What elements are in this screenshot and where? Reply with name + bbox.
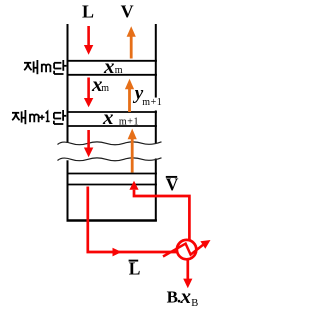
- column left wall lower: [67, 160, 69, 221]
- svg-text:B: B: [191, 298, 198, 309]
- svg-text:m+1: m+1: [142, 97, 162, 108]
- red arrow below stage m+1: [84, 130, 93, 157]
- column right wall upper segment: [155, 24, 157, 98]
- tray m bottom line: [67, 74, 157, 76]
- bottom tray bottom line: [67, 184, 157, 186]
- red arrowhead on L-bar pipe: [113, 248, 122, 257]
- orange arrow V out of stage m: [127, 26, 136, 58]
- reboiler zigzag heater arrow: [163, 244, 203, 257]
- svg-text:x: x: [102, 105, 114, 129]
- red arrow x_m leaving stage m: [84, 78, 93, 108]
- svg-text:x: x: [180, 284, 192, 308]
- svg-text:m: m: [115, 65, 123, 76]
- column bottom line: [67, 219, 157, 221]
- wavy break line upper: [58, 142, 162, 145]
- red arrow down to B: [183, 279, 192, 289]
- red arrow up into column bottom: [129, 181, 138, 190]
- red vapor return pipe from reboiler: [134, 190, 189, 240]
- orange arrow up across break: [128, 129, 137, 173]
- svg-text:L: L: [82, 2, 94, 22]
- korean label 제 m+1단 (stage m+1): [12, 110, 66, 124]
- column right wall below y label gap: [155, 110, 157, 143]
- wavy break line lower: [58, 158, 162, 161]
- svg-text:x: x: [103, 54, 115, 78]
- svg-text:V: V: [121, 2, 134, 22]
- korean label 제 m단 (stage m): [24, 60, 66, 74]
- column left wall upper: [67, 24, 69, 143]
- tray m+1 bottom line: [67, 125, 157, 127]
- tray m top line: [67, 60, 157, 62]
- white patch over right wall under y_m+1 subscript: [150, 98, 162, 111]
- red arrow L into stage m: [84, 26, 93, 55]
- reboiler circle: [177, 240, 196, 259]
- bottom tray top line: [67, 173, 157, 175]
- tray m+1 top line: [67, 111, 157, 113]
- svg-text:m+1: m+1: [119, 117, 139, 128]
- red bottoms product pipe: [186, 260, 189, 279]
- red bottoms liquid pipe L-bar: [88, 187, 178, 253]
- orange arrow y_m+1 into stage m: [125, 79, 134, 112]
- column right wall lower: [155, 159, 157, 222]
- svg-text:m: m: [101, 83, 109, 94]
